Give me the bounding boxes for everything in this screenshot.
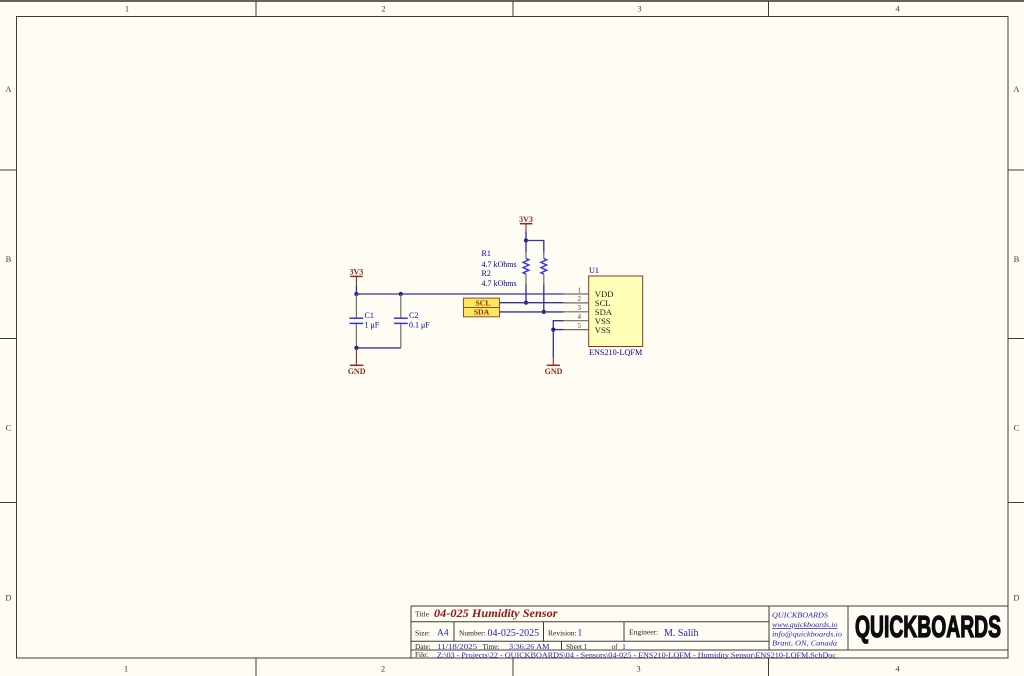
wire SCL net (500, 302, 564, 304)
svg-text:Title: Title (415, 609, 430, 618)
svg-text:GND: GND (545, 367, 563, 376)
svg-text:4: 4 (895, 664, 900, 674)
junction R2/SDA (542, 310, 546, 314)
svg-text:Revision:: Revision: (548, 628, 577, 637)
junction VSS node (551, 328, 555, 332)
wire VSS pin5 (553, 329, 563, 331)
IC U1 body (589, 276, 643, 347)
pin 2 SCL (564, 302, 589, 304)
wire R2 bottom to SDA (543, 285, 545, 312)
svg-text:B: B (1014, 254, 1020, 264)
pin 3 SDA (564, 311, 589, 313)
wire to R2 top (526, 241, 544, 253)
svg-text:M. Salih: M. Salih (664, 628, 698, 639)
wire VSS down to GND (552, 330, 554, 357)
svg-text:SDA: SDA (474, 308, 490, 317)
svg-text:QUICKBOARDS: QUICKBOARDS (772, 610, 828, 619)
svg-text:C: C (6, 423, 12, 433)
svg-text:A: A (5, 84, 12, 94)
resistor R2 (541, 253, 547, 285)
svg-text:3V3: 3V3 (519, 215, 533, 224)
junction at 3V3/C1/VDD node (354, 292, 358, 296)
pin 1 VDD (564, 293, 589, 295)
svg-text:3V3: 3V3 (350, 268, 364, 277)
svg-text:Brant, ON, Canada: Brant, ON, Canada (772, 639, 837, 648)
svg-text:4.7 kOhms: 4.7 kOhms (482, 279, 517, 288)
svg-text:D: D (1013, 593, 1019, 603)
svg-text:4: 4 (895, 4, 900, 14)
pin 5 VSS (564, 329, 589, 331)
svg-text:A: A (1013, 84, 1020, 94)
power port 3V3 (left) (350, 268, 364, 286)
svg-text:04-025 Humidity Sensor: 04-025 Humidity Sensor (434, 608, 558, 620)
svg-text:Engineer:: Engineer: (629, 628, 658, 637)
wire VSS pin4 elbow (553, 321, 563, 330)
svg-text:4: 4 (578, 313, 582, 321)
svg-text:info@quickboards.io: info@quickboards.io (772, 630, 842, 639)
resistor R1 (523, 253, 529, 285)
power port 3V3 (right) (519, 215, 533, 232)
ground GND (left) (348, 348, 366, 376)
svg-text:1 μF: 1 μF (365, 320, 380, 329)
svg-text:3: 3 (637, 4, 641, 14)
svg-text:3: 3 (578, 304, 582, 312)
pin 4 VSS (564, 320, 589, 322)
svg-text:D: D (5, 593, 11, 603)
wire R1 top lead (525, 241, 527, 253)
svg-text:QUICKBOARDS: QUICKBOARDS (855, 610, 1001, 644)
svg-text:ENS210-LQFM: ENS210-LQFM (589, 348, 643, 357)
svg-text:1: 1 (125, 4, 129, 14)
svg-text:File:: File: (415, 651, 428, 659)
svg-text:C1: C1 (365, 311, 374, 320)
svg-text:Z:\03 - Projects\22 - QUICKBOA: Z:\03 - Projects\22 - QUICKBOARDS\04 - S… (437, 650, 837, 659)
port SDA (464, 308, 500, 317)
svg-text:SCL: SCL (475, 298, 490, 307)
wire 3V3 left vertical (355, 286, 357, 295)
svg-text:C: C (1014, 423, 1020, 433)
svg-text:U1: U1 (589, 266, 599, 275)
svg-text:4.7 kOhms: 4.7 kOhms (482, 260, 517, 269)
svg-text:1: 1 (578, 286, 582, 294)
svg-text:R2: R2 (482, 269, 491, 278)
svg-text:www.quickboards.io: www.quickboards.io (772, 620, 838, 629)
port SCL (464, 298, 500, 307)
wire SDA net (500, 311, 564, 313)
wire C1-C2 bottom (356, 347, 400, 349)
ground GND (right) (545, 357, 563, 376)
svg-text:GND: GND (348, 367, 366, 376)
svg-text:0.1 μF: 0.1 μF (409, 320, 430, 329)
junction at GND node left (354, 346, 358, 350)
capacitor C1 (350, 294, 364, 348)
svg-text:5: 5 (578, 322, 582, 330)
svg-text:Size:: Size: (415, 628, 430, 637)
wire 3V3 right vertical (525, 232, 527, 241)
wire R1 bottom to SCL (525, 285, 527, 303)
svg-text:3: 3 (636, 664, 640, 674)
svg-text:1: 1 (578, 629, 583, 639)
svg-text:VSS: VSS (595, 325, 611, 335)
capacitor C2 (394, 294, 408, 348)
svg-text:04-025-2025: 04-025-2025 (488, 628, 540, 639)
svg-text:2: 2 (578, 295, 582, 303)
junction at C2 tap (399, 292, 403, 296)
svg-text:2: 2 (381, 664, 385, 674)
svg-text:Number:: Number: (459, 628, 486, 637)
svg-text:2: 2 (381, 4, 385, 14)
svg-text:B: B (6, 254, 12, 264)
junction at R1/R2 top node (524, 238, 528, 242)
wire VDD net horizontal (356, 293, 563, 295)
svg-text:Date:: Date: (415, 643, 431, 651)
svg-text:A4: A4 (437, 629, 449, 639)
TITLE BLOCK (decorative) (411, 606, 1008, 658)
svg-text:1: 1 (124, 664, 128, 674)
svg-text:R1: R1 (482, 249, 491, 258)
junction R1/SCL (524, 301, 528, 305)
svg-text:C2: C2 (409, 311, 418, 320)
